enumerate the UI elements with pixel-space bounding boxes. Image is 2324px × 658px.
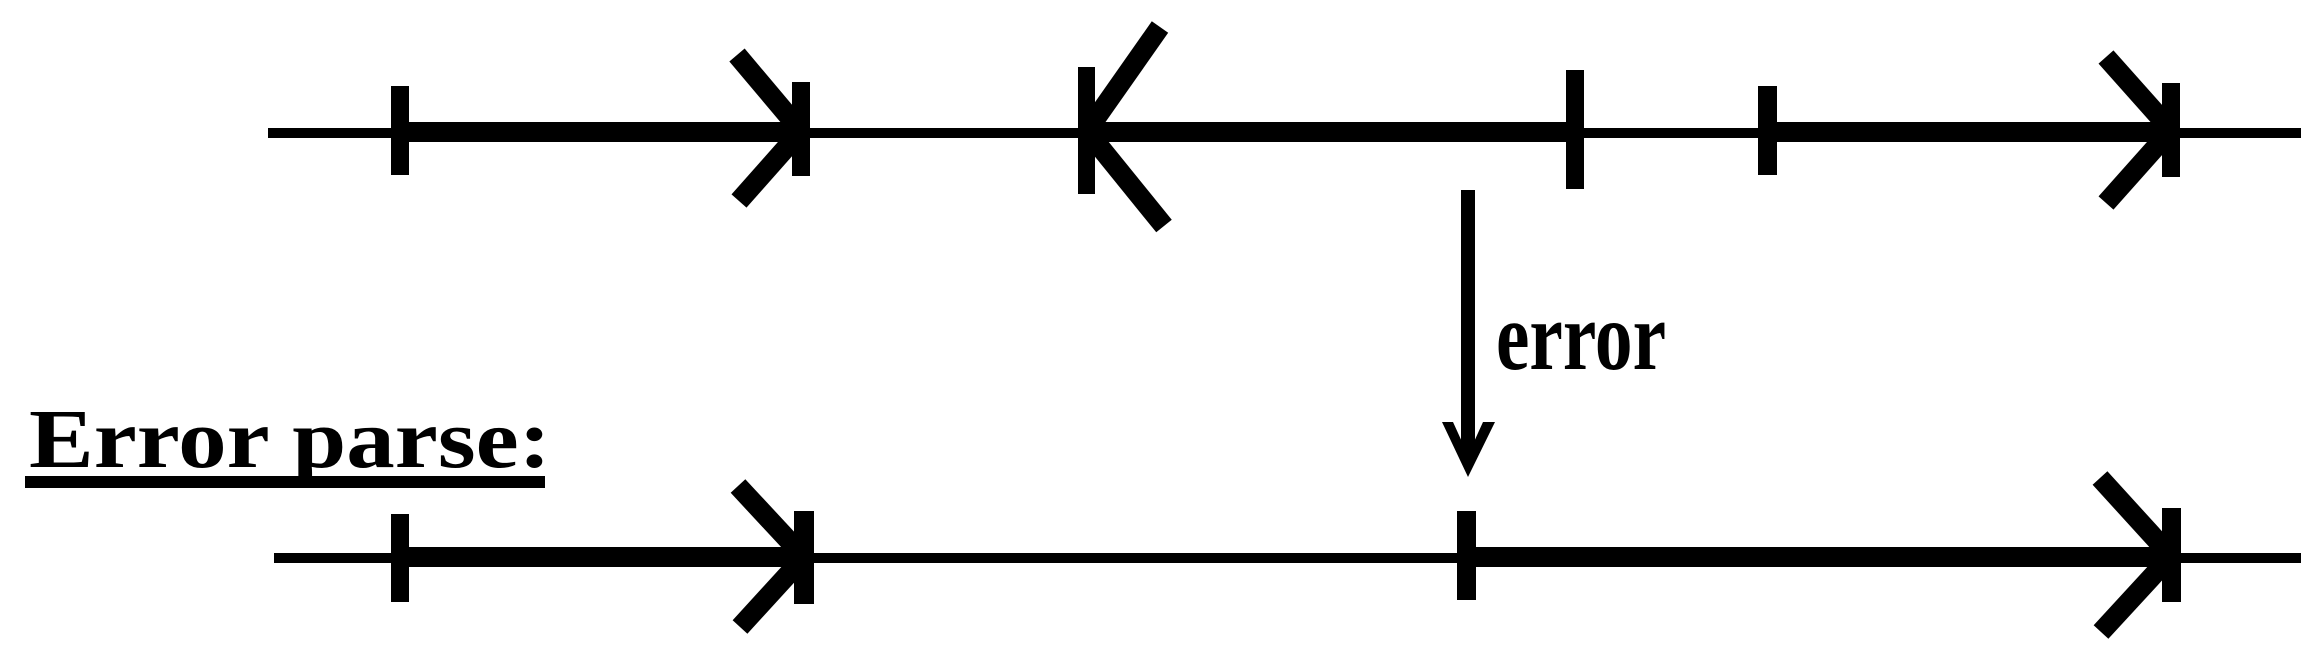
svg-text:error: error: [1496, 283, 1666, 390]
svg-text:Error parse:: Error parse:: [29, 393, 551, 486]
